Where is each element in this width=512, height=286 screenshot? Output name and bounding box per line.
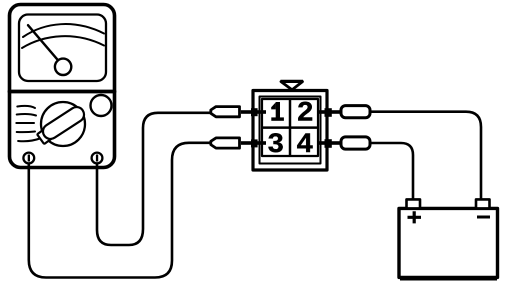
svg-text:4: 4 bbox=[297, 128, 313, 158]
svg-text:2: 2 bbox=[297, 97, 313, 127]
svg-text:3: 3 bbox=[268, 128, 284, 158]
